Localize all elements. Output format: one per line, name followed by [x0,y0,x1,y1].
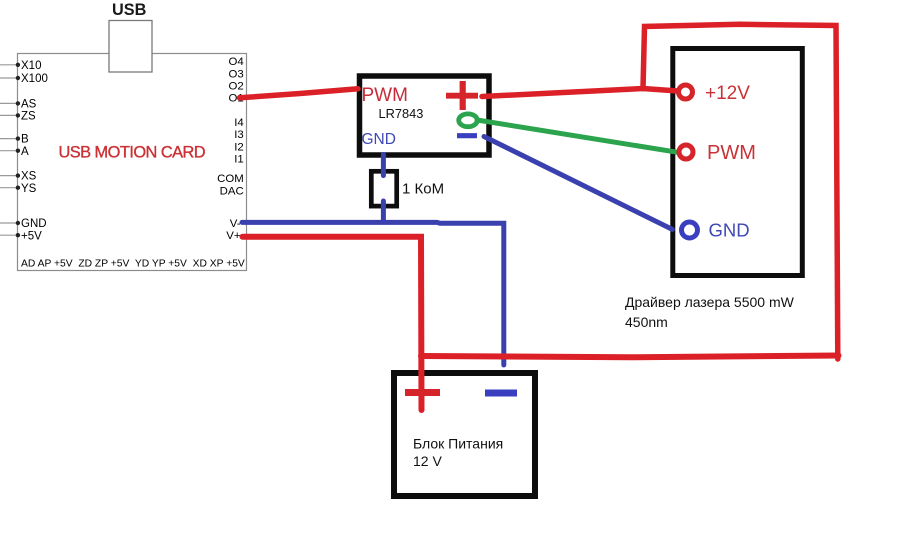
module minus terminal [457,133,477,138]
USB MOTION CARD body [18,54,247,271]
svg-text:+5V: +5V [21,230,42,242]
svg-text:AS: AS [21,99,37,111]
svg-text:12 V: 12 V [413,453,442,469]
laser driver box [673,49,803,276]
svg-text:B: B [21,134,29,146]
svg-text:LR7843: LR7843 [379,106,424,121]
svg-text:A: A [21,146,29,158]
red wire: module plus to driver +12V [482,89,678,97]
pin +5V [0,230,42,242]
blue wire: module GND to resistor [381,155,386,176]
svg-text:1 КоМ: 1 КоМ [402,180,444,197]
svg-text:I1: I1 [234,153,244,165]
svg-text:I3: I3 [234,129,244,141]
green wire: module PWM-out to driver PWM [477,120,677,152]
red wire: card V+ right and down to PSU plus [243,237,422,410]
svg-text:PWM: PWM [707,142,756,164]
svg-text:AD AP +5V ZD ZP +5V YD YP +5: AD AP +5V ZD ZP +5V YD YP +5V XD XP +5V [21,258,245,269]
svg-text:GND: GND [709,220,750,241]
svg-text:Блок Питания: Блок Питания [413,436,503,452]
svg-text:450nm: 450nm [625,314,668,330]
blue wire: module minus to driver GND [484,137,672,230]
svg-text:+12V: +12V [705,83,750,104]
driver terminal +12V [679,83,751,104]
svg-text:I2: I2 [234,141,244,153]
svg-text:ZS: ZS [21,111,36,123]
pin YS [0,183,37,195]
pin XS [0,171,37,183]
svg-text:USB MOTION CARD: USB MOTION CARD [59,144,206,162]
svg-text:Драйвер лазера 5500 mW: Драйвер лазера 5500 mW [625,294,795,310]
pin AS [0,99,37,111]
svg-text:V+: V+ [226,230,241,242]
PWM driver module U1 box [360,76,490,155]
svg-text:DAC: DAC [220,186,244,198]
svg-text:XS: XS [21,171,37,183]
PSU minus terminal [485,390,517,397]
power supply box [394,373,535,496]
svg-text:O3: O3 [228,68,243,80]
blue wire: V- horizontal and down to PSU minus [242,222,504,365]
red wire: riser from +12V node to top rail [643,24,838,359]
pin ZS [0,111,36,123]
svg-text:V-: V- [230,218,241,230]
red wire: bottom rail PSU plus to right riser [421,356,839,358]
blue wire: resistor to V- rail [381,201,386,222]
pin A [0,146,29,158]
pin B [0,134,29,146]
pin GND [0,218,47,230]
svg-text:COM: COM [217,173,244,185]
USB connector box [109,21,152,73]
PSU plus terminal [405,389,440,396]
module PWM output terminal (green ellipse) [459,114,478,127]
red wire: card O1 to module PWM input [240,89,359,98]
resistor R1 [371,171,396,206]
svg-text:YS: YS [21,183,37,195]
svg-text:X100: X100 [21,73,48,85]
svg-text:GND: GND [21,218,47,230]
svg-text:USB: USB [112,1,147,19]
pin X100 [0,73,48,85]
driver terminal GND [682,220,750,241]
svg-text:I4: I4 [234,117,244,129]
svg-text:O2: O2 [228,80,243,92]
driver terminal PWM [679,142,756,164]
pin X10 [0,60,41,72]
svg-text:GND: GND [362,131,396,148]
svg-text:O4: O4 [228,56,243,68]
svg-text:X10: X10 [21,60,41,72]
svg-text:PWM: PWM [362,85,408,106]
module plus terminal [446,81,478,110]
